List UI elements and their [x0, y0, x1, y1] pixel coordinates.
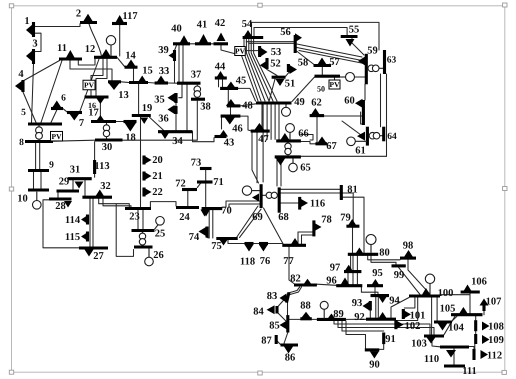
wire 100-102	[397, 298, 418, 321]
bus 96 bar	[336, 284, 362, 287]
bus 68 bar	[278, 187, 281, 212]
wire 113-30	[94, 142, 96, 160]
svg-text:30: 30	[102, 142, 113, 153]
svg-text:25: 25	[155, 228, 166, 239]
wire 50-59	[355, 76, 367, 78]
load arrow bus 7	[69, 114, 79, 121]
wire 15-33	[148, 82, 155, 85]
svg-text:70: 70	[221, 205, 232, 216]
wire 54-63	[252, 22, 380, 50]
svg-text:37: 37	[191, 69, 202, 80]
wire 90-91	[379, 344, 383, 349]
wire 54-49c	[249, 39, 269, 101]
load arrow bus 70	[202, 210, 210, 217]
wire 70-75b	[212, 210, 214, 238]
svg-text:PV: PV	[84, 81, 95, 90]
load arrow bus 76	[259, 245, 268, 252]
wire 80-96b	[356, 256, 358, 284]
svg-text:55: 55	[349, 24, 360, 35]
wire 31-32	[84, 180, 86, 196]
load arrow bus 67	[318, 137, 327, 144]
svg-text:54: 54	[242, 19, 253, 30]
bus 33 bar	[155, 81, 168, 84]
bus 110 bar	[440, 345, 469, 348]
load arrow bus 43	[219, 130, 228, 137]
load arrow bus 82	[303, 279, 312, 285]
load arrow bus 86	[284, 347, 293, 354]
wire 49-66b	[270, 105, 272, 140]
bus 6 bar	[51, 107, 63, 110]
svg-text:68: 68	[278, 212, 289, 223]
wire 100-101	[404, 298, 415, 309]
wire 23-26	[116, 204, 133, 257]
bus 18 bar	[124, 120, 137, 123]
bus 91 bar	[382, 333, 385, 345]
wire 66-67	[301, 142, 316, 144]
load arrow bus 97	[344, 265, 353, 272]
svg-text:93: 93	[352, 298, 363, 309]
bus 78 bar	[312, 220, 315, 236]
wire 100-104	[436, 298, 438, 321]
svg-text:104: 104	[448, 322, 465, 333]
bus 95 bar	[367, 284, 383, 287]
wire 89-91	[342, 321, 384, 331]
svg-text:74: 74	[189, 232, 200, 243]
bus 61 bar	[366, 127, 369, 146]
load arrow bus 74	[199, 227, 207, 236]
bus 102 bar	[394, 320, 397, 329]
svg-text:56: 56	[280, 27, 291, 38]
wire 2-12	[89, 24, 102, 56]
bus 40 bar	[173, 42, 190, 45]
wire 59-61	[342, 121, 361, 135]
wire 7-12	[80, 59, 99, 111]
load arrow bus 92	[378, 312, 387, 319]
wire 100-103	[431, 298, 433, 335]
bus 98 bar	[400, 257, 416, 260]
wire 69-70b	[229, 204, 260, 207]
wire 77-82	[289, 247, 295, 284]
transformer T25-26	[139, 233, 145, 239]
load arrow bus 75	[219, 239, 228, 246]
svg-text:77: 77	[283, 256, 294, 267]
wire 54-56b	[249, 42, 294, 44]
wire 77-78a	[298, 232, 314, 245]
svg-text:116: 116	[310, 198, 325, 209]
load arrow bus 15	[138, 76, 147, 83]
bus 2 bar	[80, 21, 97, 24]
load arrow bus 57	[318, 58, 327, 65]
load arrow bus 116	[301, 199, 308, 207]
svg-text:41: 41	[197, 19, 208, 30]
wire 51-49	[269, 79, 275, 102]
wire 4-5	[23, 92, 36, 123]
wire 12-14	[117, 57, 125, 66]
wire 35-37	[179, 85, 182, 98]
svg-text:71: 71	[213, 177, 224, 188]
wire 49-66d	[278, 105, 280, 140]
bus 100 bar	[409, 294, 440, 297]
wire 50-49	[292, 77, 315, 102]
wire 68-116	[281, 202, 299, 204]
svg-text:14: 14	[125, 50, 136, 61]
bus 28 bar	[49, 197, 72, 200]
load arrow bus 90	[370, 352, 379, 359]
wire 94-92a	[375, 297, 377, 318]
wire 70-75a	[208, 210, 210, 238]
wire 65-68b	[280, 158, 282, 186]
bus 26 bar	[134, 245, 153, 248]
svg-text:73: 73	[191, 157, 202, 168]
svg-text:20: 20	[152, 155, 163, 166]
bus 87 bar	[275, 335, 278, 344]
bus 42 bar	[214, 42, 229, 45]
load arrow bus 114	[81, 215, 88, 224]
transformer T61-64	[369, 132, 376, 139]
bus 44 bar	[215, 76, 227, 79]
generator at bus 12	[110, 45, 112, 56]
load arrow bus 115	[81, 232, 88, 241]
wire 110-111	[453, 349, 455, 365]
wire 40-37b	[182, 45, 184, 82]
load arrow bus 60	[355, 99, 363, 108]
wire 83-85	[287, 303, 289, 316]
svg-text:65: 65	[300, 162, 311, 173]
bus 53 bar	[258, 46, 261, 57]
wire 36-34	[175, 114, 177, 131]
svg-text:75: 75	[211, 241, 222, 252]
svg-text:69: 69	[252, 212, 263, 223]
wire 63-64a	[380, 74, 382, 127]
wire 11-13	[70, 61, 112, 81]
wire 9-10b	[40, 172, 42, 188]
wire 6-7	[63, 109, 68, 113]
wire 28-29	[57, 193, 59, 198]
svg-text:97: 97	[330, 262, 341, 273]
bus 101 bar	[402, 309, 405, 319]
wire 47-49	[261, 105, 263, 130]
load arrow bus 11	[66, 50, 75, 58]
wire 11-12	[78, 59, 95, 65]
wire 12-117	[119, 25, 121, 56]
wire 17-30	[106, 123, 108, 138]
load arrow bus 31	[75, 182, 84, 189]
svg-text:82: 82	[290, 273, 301, 284]
bus 93 bar	[369, 301, 372, 311]
svg-text:66: 66	[298, 128, 309, 139]
wire 12-16a	[91, 59, 103, 96]
load arrow bus 106	[463, 285, 472, 293]
bus 22 bar	[142, 188, 145, 197]
load arrow bus 69	[252, 194, 259, 202]
wire 82-83a	[289, 287, 300, 293]
wire 71-73	[205, 170, 207, 181]
bus 14 bar	[125, 66, 138, 69]
load arrow bus 96	[341, 278, 350, 286]
load arrow bus 105	[459, 307, 468, 314]
bus 72 bar	[182, 188, 197, 191]
wire 29-31	[72, 180, 74, 189]
bus 19 bar	[132, 114, 151, 117]
bus 30 bar	[95, 138, 123, 141]
wire 45-49	[238, 88, 255, 101]
bus 117 bar	[112, 22, 127, 25]
wire 72-24	[187, 191, 189, 206]
svg-text:60: 60	[344, 95, 355, 106]
svg-text:2: 2	[76, 8, 81, 19]
wire 59-63	[366, 67, 384, 69]
load arrow bus 103	[426, 337, 436, 344]
wire 49-66c	[274, 105, 276, 140]
wire 54-49e	[254, 39, 277, 101]
svg-text:9: 9	[49, 161, 54, 171]
wire 56-59a	[297, 44, 362, 57]
bus 71 bar	[197, 180, 213, 183]
wire 17-18	[116, 121, 124, 123]
load arrow bus 102	[397, 321, 404, 329]
svg-text:83: 83	[267, 291, 278, 302]
bus 4 bar	[21, 80, 24, 92]
svg-text:43: 43	[224, 137, 235, 148]
wire 81-79	[343, 193, 353, 225]
svg-text:28: 28	[55, 201, 66, 212]
wire 38-37	[196, 85, 198, 98]
svg-text:115: 115	[65, 232, 80, 243]
svg-text:29: 29	[59, 176, 70, 187]
wire 23-25	[137, 210, 139, 229]
bus 108 bar	[474, 320, 477, 331]
load arrow bus 42	[217, 33, 226, 42]
wire 54-55	[254, 28, 347, 37]
bus 54 bar	[243, 36, 264, 39]
bus 106 bar	[461, 290, 480, 293]
load arrow bus 18	[124, 123, 136, 132]
svg-text:PV: PV	[330, 80, 341, 89]
svg-text:51: 51	[285, 78, 296, 89]
wire pv50	[334, 78, 336, 80]
wire 59-60	[364, 84, 366, 100]
wire 8-9a	[35, 143, 37, 169]
svg-text:12: 12	[85, 44, 96, 55]
load arrow bus 1	[26, 24, 33, 36]
svg-text:33: 33	[159, 66, 170, 77]
bus 39 bar	[173, 50, 176, 61]
wire 105-107	[483, 311, 485, 315]
svg-text:18: 18	[125, 132, 136, 143]
load arrow bus 100	[422, 288, 431, 296]
svg-text:59: 59	[367, 45, 378, 56]
bus 48 bar	[227, 104, 241, 107]
wire 71-72	[197, 183, 201, 188]
bus 50 bar	[315, 75, 341, 78]
load arrow bus 62	[311, 108, 320, 115]
svg-text:111: 111	[462, 366, 477, 377]
bus 80 bar	[348, 253, 378, 256]
wire 103-105	[444, 316, 455, 335]
svg-text:78: 78	[321, 214, 332, 225]
svg-text:92: 92	[354, 312, 365, 323]
bus 43 bar	[215, 135, 227, 138]
load arrow bus 21	[145, 172, 152, 180]
transformer T5-8	[36, 127, 43, 134]
wire 38-30	[123, 101, 198, 140]
bus 62 bar	[310, 114, 325, 117]
svg-text:48: 48	[242, 100, 253, 111]
svg-text:67: 67	[326, 141, 337, 152]
wire 96-94	[361, 287, 378, 295]
load arrow bus 85	[280, 321, 288, 330]
load arrow bus 27	[85, 250, 94, 257]
wire 86-87	[276, 340, 280, 345]
bus 36 bar	[174, 106, 177, 114]
generator at bus 69	[252, 190, 260, 192]
load arrow bus 14	[126, 60, 136, 68]
svg-text:86: 86	[285, 352, 296, 363]
bus 75 bar	[216, 237, 237, 240]
svg-text:4: 4	[18, 69, 24, 80]
wire 51-58	[285, 72, 289, 77]
wire 45-48	[227, 90, 229, 105]
bus 13 bar	[108, 80, 121, 83]
bus 115 bar	[86, 232, 89, 242]
svg-text:10: 10	[17, 193, 28, 204]
load arrow bus 58	[290, 65, 298, 74]
svg-text:15: 15	[142, 65, 153, 76]
load arrow bus 22	[145, 188, 152, 196]
generator at bus 49	[285, 105, 287, 108]
svg-text:53: 53	[271, 47, 282, 58]
svg-text:103: 103	[411, 338, 427, 349]
wire 8-30	[53, 140, 95, 141]
svg-text:87: 87	[261, 335, 272, 346]
bus 97 bar	[344, 270, 361, 273]
wire 80-96	[352, 256, 354, 284]
wire 104-105	[452, 316, 457, 321]
load arrow bus 65	[276, 159, 285, 166]
wire 15-19	[138, 84, 140, 114]
bus 111 bar	[444, 364, 465, 367]
load arrow bus 6	[52, 101, 61, 108]
wire 57-50	[321, 67, 323, 75]
wire 89-103b	[338, 321, 434, 335]
wire pv54-53	[245, 50, 259, 52]
svg-text:94: 94	[389, 295, 400, 306]
svg-text:22: 22	[152, 187, 163, 198]
wire 113-31	[94, 174, 96, 177]
wire 95-94	[374, 287, 376, 294]
wire 61-64	[367, 135, 383, 137]
wire 47-69b	[256, 133, 258, 183]
wire 99-100	[399, 267, 420, 294]
wire 75-77	[228, 240, 282, 244]
bus 70 bar	[202, 207, 223, 210]
load arrow bus 12	[101, 49, 111, 57]
svg-text:36: 36	[158, 113, 169, 124]
bus 3 bar	[32, 49, 35, 64]
svg-text:17: 17	[88, 107, 99, 118]
wire 62-67	[316, 117, 318, 142]
bus 5 bar	[28, 122, 62, 125]
load arrow bus 78	[315, 223, 322, 231]
bus 88 bar	[300, 317, 312, 320]
svg-text:38: 38	[200, 101, 211, 112]
wire 68-81a	[281, 188, 340, 190]
wire 82-83b	[289, 287, 301, 295]
svg-text:101: 101	[410, 310, 426, 321]
wire 9-10a	[33, 172, 35, 188]
svg-text:39: 39	[158, 45, 169, 56]
svg-text:PV: PV	[52, 132, 63, 141]
bus 114 bar	[86, 215, 89, 225]
svg-text:105: 105	[440, 303, 456, 314]
wire 5-8	[38, 126, 40, 140]
svg-text:1: 1	[24, 16, 29, 27]
bus 81 bar	[340, 185, 343, 200]
bus 25 bar	[132, 229, 155, 232]
svg-text:112: 112	[487, 350, 502, 361]
bus 118 bar	[245, 242, 254, 245]
bus 85 bar	[286, 315, 289, 332]
wire 55-59	[352, 38, 364, 55]
load arrow bus 66	[280, 133, 289, 140]
load arrow bus 40	[180, 35, 189, 43]
transformer T65-66	[285, 143, 291, 149]
load arrow bus 93	[363, 302, 370, 311]
PV16 box	[83, 80, 95, 90]
load arrow bus 53	[261, 48, 268, 57]
bus 90 bar	[365, 348, 380, 351]
load arrow bus 117	[115, 15, 124, 23]
wire 63-64b	[386, 74, 388, 156]
wire 33-37	[168, 82, 177, 84]
load arrow bus 98	[404, 250, 413, 257]
wire 32-23b	[103, 199, 131, 209]
bus 83 bar (diagonal)	[287, 292, 290, 302]
load arrow bus 46	[225, 118, 235, 125]
wire 89-103a	[334, 321, 430, 335]
wire 69-77	[264, 208, 284, 244]
bus 41 bar	[195, 42, 211, 45]
wire 3-5	[32, 64, 34, 123]
svg-text:63: 63	[387, 56, 397, 66]
bus 21 bar	[142, 172, 145, 181]
svg-text:11: 11	[57, 43, 67, 54]
wire 89-92	[346, 318, 366, 320]
wire 37-34	[186, 85, 188, 131]
svg-text:89: 89	[333, 309, 344, 320]
wire 98-100	[408, 260, 430, 295]
wire 105-108	[475, 316, 477, 320]
wire 69-75a	[237, 206, 259, 238]
load arrow bus 24	[201, 210, 209, 217]
load arrow bus 28	[64, 201, 72, 208]
bus 69 bar	[260, 184, 263, 208]
bus 76 bar	[259, 242, 268, 245]
wire 57-56	[297, 51, 315, 65]
wire 82-96	[317, 284, 336, 285]
wire 56-59b	[297, 48, 362, 61]
wire 35-36	[175, 103, 177, 106]
bus 67 bar	[315, 142, 327, 145]
load arrow bus 39	[169, 51, 176, 60]
wire 84-85	[278, 313, 287, 323]
wire 13-15	[121, 81, 129, 84]
wire 80-97	[350, 256, 352, 270]
bus 73 bar	[200, 167, 212, 170]
load arrow bus 89	[327, 314, 336, 320]
svg-text:27: 27	[93, 251, 104, 262]
bus 27 bar	[79, 246, 108, 249]
